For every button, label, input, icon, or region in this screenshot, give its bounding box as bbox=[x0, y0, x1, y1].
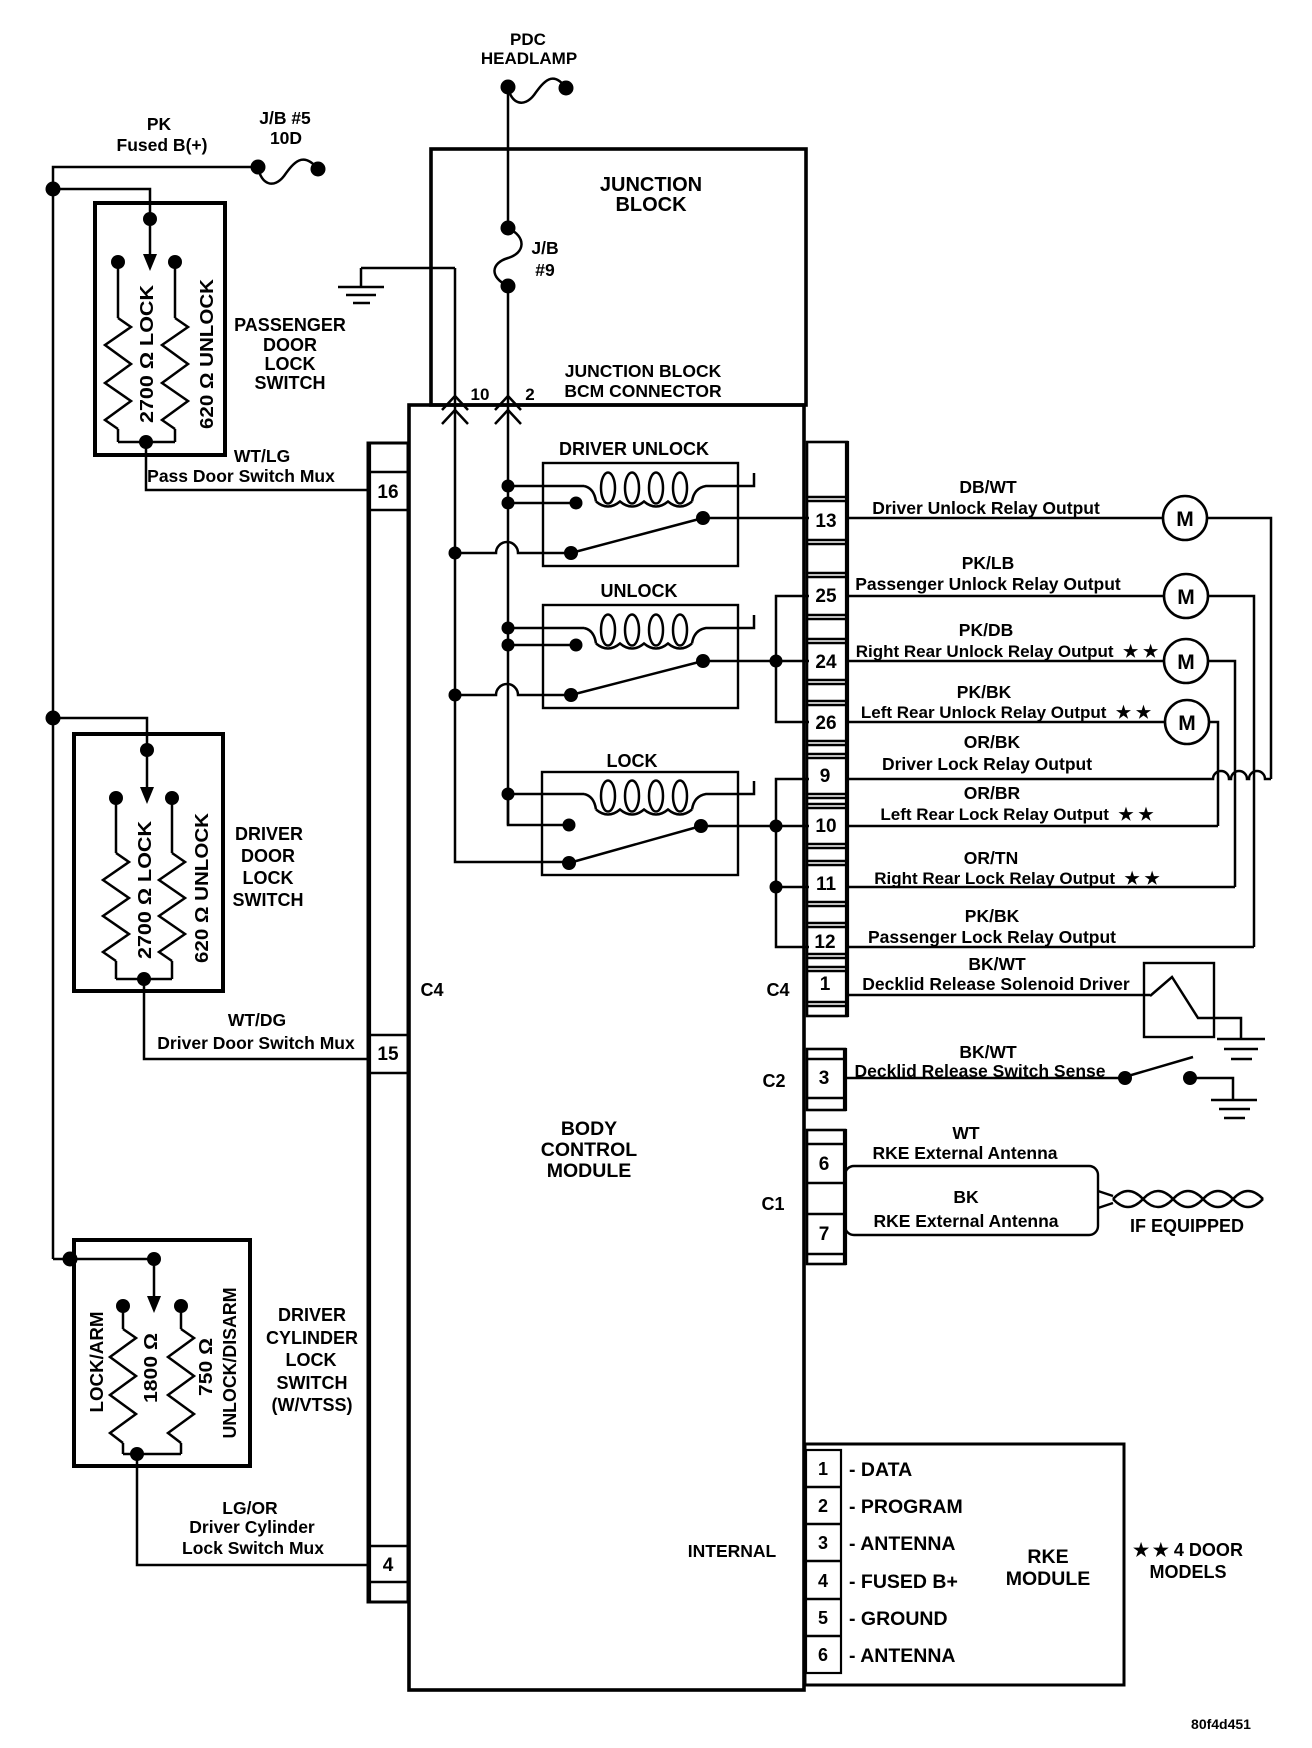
svg-text:BK: BK bbox=[953, 1187, 979, 1207]
svg-text:1800 Ω: 1800 Ω bbox=[140, 1333, 161, 1403]
wire feed to passenger door lock switch bbox=[53, 189, 150, 219]
svg-text:PK: PK bbox=[147, 114, 172, 134]
svg-text:RKE: RKE bbox=[1027, 1546, 1068, 1568]
svg-text:- GROUND: - GROUND bbox=[849, 1608, 948, 1630]
wire pin 25 to motor M2 bbox=[847, 595, 1164, 598]
svg-text:LOCK/ARM: LOCK/ARM bbox=[86, 1312, 107, 1413]
node passenger lock resistor top bbox=[111, 255, 125, 269]
svg-text:6: 6 bbox=[818, 1645, 828, 1665]
decklid release switch bbox=[1118, 1057, 1233, 1100]
wire pin 1 to solenoid bbox=[847, 994, 1150, 997]
wire M1 return to pin 9 net bbox=[1207, 518, 1271, 779]
svg-text:25: 25 bbox=[815, 586, 837, 607]
svg-text:C4: C4 bbox=[766, 980, 789, 1000]
svg-text:M: M bbox=[1177, 586, 1195, 609]
svg-text:MODELS: MODELS bbox=[1149, 1562, 1226, 1582]
svg-text:Right Rear Unlock Relay Output: Right Rear Unlock Relay Output ★ ★ bbox=[856, 642, 1159, 661]
svg-text:PK/LB: PK/LB bbox=[962, 553, 1015, 573]
svg-text:BLOCK: BLOCK bbox=[615, 194, 687, 216]
svg-text:BCM CONNECTOR: BCM CONNECTOR bbox=[564, 381, 722, 401]
svg-text:LOCK: LOCK bbox=[286, 1350, 337, 1370]
node PDC HEADLAMP label bbox=[481, 30, 577, 68]
node bus junction driver feed bbox=[46, 711, 61, 726]
wire unlock output bus to pins 25 24 26 bbox=[770, 596, 810, 722]
svg-text:Driver Lock Relay Output: Driver Lock Relay Output bbox=[882, 754, 1092, 774]
wire junction block pin 10 drop bbox=[454, 268, 457, 405]
label PK/BK Passenger Lock Relay Output bbox=[868, 906, 1116, 947]
wire lock output bus to pins 9 10 11 12 bbox=[770, 779, 810, 947]
resistor 620 ohm passenger unlock bbox=[162, 262, 188, 442]
junction block box bbox=[431, 149, 806, 405]
label J/B #5 10D bbox=[259, 108, 311, 148]
wire feed to driver door lock switch bbox=[53, 718, 147, 750]
svg-text:Driver Cylinder: Driver Cylinder bbox=[189, 1517, 315, 1537]
svg-text:Left Rear Unlock Relay Output: Left Rear Unlock Relay Output ★ ★ bbox=[861, 703, 1152, 722]
twisted pair antenna lead bbox=[1098, 1191, 1263, 1208]
wire pin10 bus to unlock contact with hop bbox=[449, 684, 572, 702]
resistor 1800 ohm lock/arm bbox=[110, 1306, 136, 1454]
wire headlamp feed vertical bbox=[507, 87, 510, 228]
svg-text:C2: C2 bbox=[762, 1071, 785, 1091]
svg-text:IF EQUIPPED: IF EQUIPPED bbox=[1130, 1216, 1244, 1236]
svg-text:WT/LG: WT/LG bbox=[234, 446, 290, 466]
ground solenoid bbox=[1217, 1039, 1265, 1059]
svg-text:Driver Door Switch Mux: Driver Door Switch Mux bbox=[157, 1033, 355, 1053]
wire cylinder switch output bbox=[123, 1447, 368, 1565]
wire M4 return to pin 10 net bbox=[1209, 722, 1218, 826]
svg-text:Left Rear Lock Relay Output ★: Left Rear Lock Relay Output ★ ★ bbox=[880, 805, 1154, 824]
svg-text:OR/BR: OR/BR bbox=[964, 783, 1021, 803]
svg-text:MODULE: MODULE bbox=[1006, 1568, 1091, 1590]
label BODY CONTROL MODULE bbox=[541, 1118, 637, 1182]
relay lock box bbox=[542, 772, 738, 875]
svg-text:M: M bbox=[1178, 712, 1196, 735]
svg-text:2: 2 bbox=[525, 385, 534, 404]
node cylinder lock resistor top bbox=[116, 1299, 130, 1313]
label DRIVER CYLINDER LOCK SWITCH (W/VTSS) bbox=[266, 1305, 358, 1415]
wire pin 3 to decklid switch bbox=[845, 1077, 1125, 1080]
motor M1 driver unlock bbox=[1163, 496, 1207, 540]
svg-text:2700 Ω LOCK: 2700 Ω LOCK bbox=[136, 284, 157, 423]
svg-text:HEADLAMP: HEADLAMP bbox=[481, 49, 577, 68]
svg-text:1: 1 bbox=[820, 974, 831, 995]
ground decklid switch bbox=[1211, 1100, 1257, 1118]
relay unlock coil bbox=[502, 615, 755, 652]
label BK/WT Decklid Release Solenoid Driver bbox=[862, 954, 1130, 994]
svg-text:2: 2 bbox=[818, 1496, 828, 1516]
wire pin 26 to motor M4 bbox=[847, 721, 1165, 724]
motor M3 right rear unlock bbox=[1164, 639, 1208, 683]
svg-text:DB/WT: DB/WT bbox=[959, 477, 1017, 497]
svg-text:11: 11 bbox=[816, 874, 837, 895]
svg-text:Passenger Lock Relay Output: Passenger Lock Relay Output bbox=[868, 927, 1116, 947]
wire fused B+ feed bbox=[53, 167, 258, 1259]
svg-text:PK/BK: PK/BK bbox=[957, 682, 1012, 702]
label WT/DG Driver Door Switch Mux bbox=[157, 1010, 355, 1053]
svg-text:LG/OR: LG/OR bbox=[222, 1498, 278, 1518]
connector J/B #9 bbox=[494, 221, 558, 294]
svg-text:9: 9 bbox=[820, 766, 831, 787]
svg-text:C4: C4 bbox=[420, 980, 443, 1000]
svg-text:LOCK: LOCK bbox=[243, 868, 294, 888]
svg-text:10: 10 bbox=[471, 385, 490, 404]
svg-text:PASSENGER: PASSENGER bbox=[234, 315, 346, 335]
svg-text:1: 1 bbox=[818, 1459, 828, 1479]
label OR/BR Left Rear Lock Relay Output bbox=[880, 783, 1154, 824]
svg-text:M: M bbox=[1176, 508, 1194, 531]
svg-text:Decklid Release Solenoid Drive: Decklid Release Solenoid Driver bbox=[862, 974, 1130, 994]
svg-text:JUNCTION BLOCK: JUNCTION BLOCK bbox=[565, 361, 722, 381]
junction block label bbox=[600, 174, 702, 216]
label OR/BK Driver Lock Relay Output bbox=[882, 732, 1092, 774]
node driver unlock resistor top bbox=[165, 791, 179, 805]
svg-text:J/B #5: J/B #5 bbox=[259, 108, 311, 128]
node cylinder feed dot at box edge bbox=[63, 1252, 78, 1267]
svg-text:WT/DG: WT/DG bbox=[228, 1010, 286, 1030]
label JUNCTION BLOCK BCM CONNECTOR bbox=[564, 361, 722, 401]
svg-text:RKE External Antenna: RKE External Antenna bbox=[872, 1143, 1057, 1163]
svg-text:16: 16 bbox=[377, 482, 398, 503]
label DRIVER DOOR LOCK SWITCH bbox=[233, 824, 304, 910]
wire driver switch output bbox=[116, 972, 368, 1059]
label PK/DB Right Rear Unlock Relay Output bbox=[856, 620, 1159, 661]
svg-text:24: 24 bbox=[815, 652, 837, 673]
svg-text:- ANTENNA: - ANTENNA bbox=[849, 1645, 956, 1667]
label LG/OR Driver Cylinder Lock Switch Mux bbox=[182, 1498, 324, 1558]
relay lock coil bbox=[502, 781, 755, 832]
wiper arrow driver switch bbox=[140, 750, 154, 804]
svg-text:Lock Switch Mux: Lock Switch Mux bbox=[182, 1538, 324, 1558]
svg-text:★ ★ 4 DOOR: ★ ★ 4 DOOR bbox=[1133, 1540, 1243, 1560]
svg-text:DRIVER: DRIVER bbox=[278, 1305, 346, 1325]
svg-text:LOCK: LOCK bbox=[265, 354, 316, 374]
svg-text:3: 3 bbox=[819, 1068, 830, 1089]
passenger door lock switch box bbox=[95, 203, 225, 455]
svg-text:7: 7 bbox=[819, 1224, 830, 1245]
svg-text:DRIVER: DRIVER bbox=[235, 824, 303, 844]
label WT/LG Pass Door Switch Mux bbox=[147, 446, 335, 486]
svg-text:DOOR: DOOR bbox=[241, 846, 295, 866]
svg-text:OR/TN: OR/TN bbox=[964, 848, 1018, 868]
connector C2 strip bbox=[807, 1048, 845, 1111]
svg-text:DRIVER UNLOCK: DRIVER UNLOCK bbox=[559, 439, 709, 459]
svg-text:10D: 10D bbox=[270, 128, 302, 148]
svg-text:CONTROL: CONTROL bbox=[541, 1139, 637, 1161]
wire pin10 bus to lock contact bbox=[455, 861, 569, 862]
decklid release solenoid bbox=[1144, 963, 1241, 1038]
wire ground to junction block pin 10 line bbox=[361, 267, 455, 270]
svg-text:26: 26 bbox=[815, 713, 836, 734]
svg-text:BK/WT: BK/WT bbox=[968, 954, 1026, 974]
relay unlock contact bbox=[564, 654, 809, 702]
label RKE MODULE bbox=[1006, 1546, 1091, 1590]
svg-text:UNLOCK/DISARM: UNLOCK/DISARM bbox=[219, 1288, 240, 1439]
svg-text:(W/VTSS): (W/VTSS) bbox=[272, 1395, 353, 1415]
svg-text:M: M bbox=[1177, 651, 1195, 674]
relay driver unlock box bbox=[543, 463, 738, 566]
motor M4 left rear unlock bbox=[1165, 700, 1209, 744]
node driver lock resistor top bbox=[109, 791, 123, 805]
body control module box bbox=[409, 405, 804, 1690]
node driver switch common bbox=[140, 743, 154, 757]
svg-text:- ANTENNA: - ANTENNA bbox=[849, 1533, 956, 1555]
relay unlock box bbox=[543, 605, 738, 708]
svg-text:SWITCH: SWITCH bbox=[233, 890, 304, 910]
resistor 620 ohm driver unlock bbox=[159, 798, 185, 979]
svg-text:15: 15 bbox=[377, 1044, 399, 1065]
node passenger unlock resistor top bbox=[168, 255, 182, 269]
svg-text:CYLINDER: CYLINDER bbox=[266, 1328, 358, 1348]
label PASSENGER DOOR LOCK SWITCH bbox=[234, 315, 346, 393]
svg-text:10: 10 bbox=[815, 816, 836, 837]
svg-text:PDC: PDC bbox=[510, 30, 546, 49]
RKE antenna block bbox=[845, 1166, 1098, 1235]
label PK/BK Left Rear Unlock Relay Output bbox=[861, 682, 1152, 722]
svg-text:PK/DB: PK/DB bbox=[959, 620, 1013, 640]
relay driver unlock contact bbox=[564, 511, 809, 560]
svg-text:6: 6 bbox=[819, 1154, 830, 1175]
pin 2 label and arrows bbox=[495, 385, 535, 424]
svg-text:Driver Unlock Relay Output: Driver Unlock Relay Output bbox=[872, 498, 1100, 518]
label DB/WT Driver Unlock Relay Output bbox=[872, 477, 1100, 518]
svg-text:5: 5 bbox=[818, 1608, 828, 1628]
RKE internal connector strip bbox=[806, 1450, 841, 1673]
svg-text:Pass Door Switch Mux: Pass Door Switch Mux bbox=[147, 466, 335, 486]
label PK/LB Passenger Unlock Relay Output bbox=[855, 553, 1121, 594]
wiper arrow cylinder switch bbox=[147, 1296, 161, 1313]
svg-text:#9: #9 bbox=[535, 260, 555, 280]
label WT RKE External Antenna bbox=[872, 1123, 1057, 1163]
svg-text:MODULE: MODULE bbox=[547, 1160, 632, 1182]
wire pin 11 to M3 return bbox=[847, 886, 1235, 889]
relay driver unlock coil bbox=[502, 473, 755, 510]
node cylinder unlock resistor top bbox=[174, 1299, 188, 1313]
wire pin 10 to M4 return bbox=[847, 825, 1218, 828]
svg-text:LOCK: LOCK bbox=[607, 751, 658, 771]
svg-text:BODY: BODY bbox=[561, 1118, 617, 1140]
wiper arrow passenger switch bbox=[143, 219, 157, 271]
label PK Fused B(+) bbox=[117, 114, 208, 155]
svg-text:620 Ω UNLOCK: 620 Ω UNLOCK bbox=[196, 278, 217, 429]
pin 10 label and arrows bbox=[442, 385, 489, 424]
svg-text:Right Rear Lock Relay Output: Right Rear Lock Relay Output ★ ★ bbox=[874, 869, 1160, 888]
svg-text:3: 3 bbox=[818, 1533, 828, 1553]
driver cylinder lock switch box bbox=[74, 1240, 250, 1466]
svg-text:620 Ω UNLOCK: 620 Ω UNLOCK bbox=[191, 812, 212, 963]
svg-text:C1: C1 bbox=[761, 1194, 784, 1214]
label BK RKE External Antenna bbox=[873, 1187, 1058, 1231]
svg-text:INTERNAL: INTERNAL bbox=[688, 1541, 777, 1561]
svg-text:12: 12 bbox=[814, 932, 835, 953]
svg-text:SWITCH: SWITCH bbox=[277, 1373, 348, 1393]
svg-text:SWITCH: SWITCH bbox=[255, 373, 326, 393]
svg-text:RKE External Antenna: RKE External Antenna bbox=[873, 1211, 1058, 1231]
wire pin 9 with hops to M1 return bbox=[847, 771, 1271, 779]
svg-text:UNLOCK: UNLOCK bbox=[601, 581, 678, 601]
resistor 2700 ohm passenger lock bbox=[105, 262, 131, 442]
label BK/WT Decklid Release Switch Sense bbox=[855, 1042, 1106, 1081]
svg-text:- PROGRAM: - PROGRAM bbox=[849, 1496, 963, 1518]
node passenger switch common bbox=[143, 212, 157, 226]
svg-text:80f4d451: 80f4d451 bbox=[1191, 1716, 1251, 1732]
relay lock contact bbox=[562, 819, 809, 870]
svg-text:4: 4 bbox=[818, 1571, 828, 1591]
driver door lock switch box bbox=[74, 734, 223, 991]
ground (junction block left) bbox=[338, 268, 384, 303]
svg-text:4: 4 bbox=[383, 1555, 394, 1576]
svg-text:WT: WT bbox=[952, 1123, 980, 1143]
svg-text:- DATA: - DATA bbox=[849, 1459, 912, 1481]
wire BCM internal bus from pin 2 bbox=[507, 405, 510, 825]
svg-text:J/B: J/B bbox=[531, 238, 558, 258]
label OR/TN Right Rear Lock Relay Output bbox=[874, 848, 1160, 888]
svg-text:BK/WT: BK/WT bbox=[959, 1042, 1017, 1062]
wire pin10 bus to driver unlock contact with hop bbox=[449, 542, 572, 560]
connector splice J/B #5 bbox=[251, 160, 326, 184]
RKE module box bbox=[805, 1444, 1124, 1685]
connector C4 left strip bbox=[368, 442, 408, 1603]
wire M2 return to pin 12 net bbox=[1208, 596, 1254, 947]
svg-text:JUNCTION: JUNCTION bbox=[600, 174, 702, 196]
connector splice PDC headlamp bbox=[501, 79, 574, 103]
resistor 2700 ohm driver lock bbox=[103, 798, 129, 979]
motor M2 passenger unlock bbox=[1164, 574, 1208, 618]
svg-text:PK/BK: PK/BK bbox=[965, 906, 1020, 926]
connector C1 strip bbox=[807, 1129, 845, 1265]
resistor 750 ohm unlock/disarm bbox=[168, 1306, 194, 1454]
svg-text:Fused B(+): Fused B(+) bbox=[117, 135, 208, 155]
node bus junction passenger feed bbox=[46, 182, 61, 197]
wire feed to driver cylinder lock switch bbox=[53, 1259, 154, 1298]
svg-text:OR/BK: OR/BK bbox=[964, 732, 1021, 752]
svg-text:750 Ω: 750 Ω bbox=[195, 1338, 216, 1396]
wire pin 12 to M2 return bbox=[847, 946, 1254, 949]
svg-text:2700 Ω LOCK: 2700 Ω LOCK bbox=[134, 820, 155, 959]
wire passenger switch output bbox=[118, 435, 368, 490]
wire pin 13 to motor M1 bbox=[847, 517, 1163, 520]
svg-text:Passenger Unlock Relay Output: Passenger Unlock Relay Output bbox=[855, 574, 1121, 594]
node cylinder switch common bbox=[147, 1252, 161, 1266]
svg-text:DOOR: DOOR bbox=[263, 335, 317, 355]
wire J/B9 to BCM pin 2 bbox=[507, 286, 510, 405]
svg-text:13: 13 bbox=[815, 511, 836, 532]
connector C4 right strip bbox=[807, 441, 847, 1017]
wire BCM internal bus from pin 10 bbox=[454, 405, 457, 861]
note 4 door models bbox=[1133, 1540, 1243, 1582]
svg-text:- FUSED B+: - FUSED B+ bbox=[849, 1571, 958, 1593]
wire pin 24 to motor M3 bbox=[847, 660, 1164, 663]
wire M3 return to pin 11 net bbox=[1208, 661, 1235, 887]
